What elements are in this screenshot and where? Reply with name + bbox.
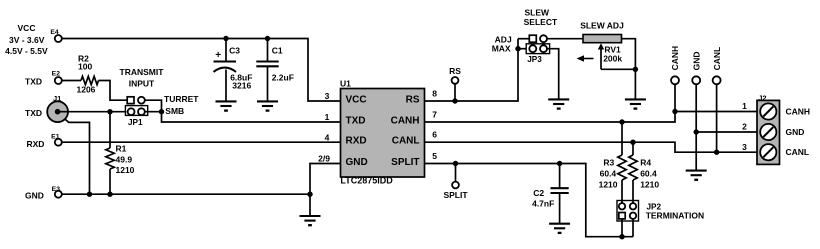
J2 screw terminal pin 1 CANH [760,103,776,119]
svg-text:CANL: CANL [786,147,810,157]
junction RS test point [452,98,457,103]
wire GND rail [62,193,310,195]
junction C3 tap on VCC rail [223,36,228,41]
svg-text:5: 5 [432,151,437,161]
resistor R1 [109,112,111,148]
junction JP2 on split rail [619,234,624,239]
svg-text:TXD: TXD [346,115,366,126]
svg-text:2/9: 2/9 [318,154,330,164]
svg-text:MAX: MAX [492,43,511,53]
svg-text:SLEW ADJ: SLEW ADJ [580,20,624,30]
junction SMB node [159,109,164,114]
svg-text:CANH: CANH [786,107,811,117]
svg-text:VCC: VCC [18,23,36,33]
svg-text:7: 7 [432,109,437,119]
svg-text:8: 8 [432,88,437,98]
wire U1 RS pin 8 to JP3 [425,39,519,101]
test point CANL [713,76,721,84]
jumper JP1 bottom-left pin [128,108,135,115]
test point CANH [671,76,679,84]
test point RS [454,84,456,101]
svg-text:JP3: JP3 [527,55,542,64]
junction J1 shell on GND rail [87,192,92,197]
junction chip GND on rail [307,192,312,197]
svg-text:GND: GND [786,127,805,137]
junction R4 tap on CANL [630,140,635,145]
svg-text:2.2uF: 2.2uF [272,72,294,82]
wire GND TP to ground [695,84,697,170]
jumper JP2 top-right pin [630,203,636,209]
svg-text:R3: R3 [603,157,614,167]
potentiometer RV1 [583,35,622,43]
jumper JP1 square pin [127,97,134,104]
junction R1 on GND rail [107,192,112,197]
svg-text:R4: R4 [640,157,651,167]
svg-text:TERMINATION: TERMINATION [646,210,704,220]
svg-text:VCC: VCC [346,94,367,105]
wire JP1 top circle to SMB node [145,100,162,112]
wire GND to J2 pin 2 [696,131,757,133]
wire JP3 top circle to RV1 [547,38,583,40]
svg-text:49.9: 49.9 [116,154,133,164]
svg-text:4.5V - 5.5V: 4.5V - 5.5V [5,46,48,56]
ground (JP3 MAX) [548,98,569,100]
svg-text:TRANSMIT: TRANSMIT [120,67,165,77]
svg-text:200k: 200k [603,54,622,64]
jumper JP3 shunt box [526,44,549,54]
RV1 adjust direction arrow [582,58,594,60]
svg-text:GND: GND [25,191,44,201]
ground (J2 GND) [686,170,707,172]
svg-text:SPLIT: SPLIT [391,157,419,168]
junction CANL TP tie [714,150,719,155]
jumper JP3 square pin (ADJ) [518,38,529,40]
wire R2 to JP1 square pin [99,81,128,101]
svg-text:1: 1 [742,101,747,111]
svg-text:C2: C2 [533,188,544,198]
junction CANH TP tie [672,109,677,114]
svg-text:3: 3 [742,142,747,152]
wire JP1 bottom-right to SMB node [145,111,162,113]
svg-text:6: 6 [432,130,437,140]
wire J1 center pin to JP1 [58,111,127,113]
capacitor C1 [267,39,269,62]
jumper JP1 shunt box [125,106,147,116]
resistor R4 [632,142,634,155]
svg-text:CANH: CANH [391,115,420,126]
svg-text:TXD: TXD [25,77,42,87]
svg-text:3V - 3.6V: 3V - 3.6V [9,35,45,45]
wire JP3 left tie to MAX row [518,48,526,50]
wire JP2 square to split rail [621,219,623,237]
svg-text:1210: 1210 [640,179,659,189]
transceiver U1 LTC2875IDD body [341,89,425,178]
svg-text:1: 1 [325,112,330,122]
junction C2 tap [557,161,562,166]
svg-text:60.4: 60.4 [640,168,657,178]
resistor R3 [621,122,623,155]
wire rail to ground symbol [309,194,311,216]
wire VCC rail E4 to chip pin 3 [62,39,341,102]
svg-text:GND: GND [346,157,368,168]
jumper JP1 bottom-right pin [138,108,145,115]
svg-text:TXD: TXD [25,108,42,118]
svg-text:U1: U1 [340,79,351,89]
svg-text:C3: C3 [229,46,240,56]
svg-text:SPLIT: SPLIT [443,190,468,200]
svg-text:JP1: JP1 [128,118,143,127]
svg-text:3: 3 [325,91,330,101]
svg-text:+: + [215,50,221,61]
svg-text:SELECT: SELECT [524,17,558,27]
svg-text:LTC2875IDD: LTC2875IDD [340,175,393,185]
junction JP3 left tie [515,46,520,51]
jumper JP3 bottom-right pin [540,45,547,52]
svg-text:RXD: RXD [346,136,367,147]
svg-text:RXD: RXD [27,139,45,149]
junction J2 pin 2 tie [694,129,699,134]
svg-text:R1: R1 [116,144,127,154]
svg-text:C1: C1 [272,46,283,56]
jumper JP2 bottom-right pin [630,213,636,219]
svg-text:CANL: CANL [712,47,722,71]
test point GND [692,76,700,84]
junction R3 tap on CANH [619,119,624,124]
wire E1 to U1 RXD pin 4 [62,141,341,143]
svg-text:1210: 1210 [116,165,135,175]
jumper JP3 top circle pin [540,35,547,42]
svg-text:1206: 1206 [77,85,96,95]
wire U1 CANH pin 7 to J2 pin 1 [425,84,676,122]
jumper JP2 top-left pin [619,203,625,209]
wire CANH to J2 pin 1 [675,111,757,113]
svg-text:SMB: SMB [165,106,184,116]
svg-text:4: 4 [325,132,330,142]
svg-text:SLEW: SLEW [525,7,551,17]
wire U1 GND pin 2/9 to rail [310,164,341,195]
junction SPLIT test point [453,161,458,166]
resistor R2 [81,76,99,84]
jumper JP2 box [617,201,639,222]
J2 screw terminal pin 2 GND [760,124,776,140]
svg-text:100: 100 [78,62,92,72]
svg-text:2: 2 [742,122,747,132]
wire JP3 bottom-right to ground [547,49,559,100]
ground (RV1) [625,98,646,100]
junction C1 tap on VCC rail [265,36,270,41]
wire E2 to R2 [62,80,81,82]
ground (U1 GND) [300,215,321,217]
capacitor C3 [225,39,227,62]
svg-text:3216: 3216 [232,81,251,91]
jumper JP3 bottom-left pin [529,45,536,52]
svg-text:GND: GND [691,52,701,71]
wire JP2 bottom-right to split rail [632,219,634,237]
J2 screw terminal pin 3 CANL [760,144,776,160]
svg-text:CANH: CANH [670,46,680,71]
svg-text:1210: 1210 [599,179,618,189]
svg-text:60.4: 60.4 [600,168,617,178]
test point SPLIT [455,164,457,182]
wire SMB node to U1 TXD pin 1 [162,112,341,122]
ground (C2) [549,223,570,225]
wire J1 shell to ground rail [65,119,90,194]
ground (C1) [257,100,278,102]
svg-text:RS: RS [406,94,420,105]
ground (C3) [216,100,237,102]
junction RV1 wiper tie [633,67,638,72]
capacitor C2 [559,164,561,189]
svg-text:TURRET: TURRET [164,94,199,104]
jumper JP2 square pin [619,213,625,219]
wire U1 CANL pin 6 to J2 pin 3 [425,142,758,152]
svg-text:CANL: CANL [392,136,420,147]
svg-text:RS: RS [449,66,461,76]
junction R1 tap on TXD line [107,109,112,114]
svg-text:INPUT: INPUT [129,79,155,89]
RV1 wiper arrow [598,43,604,49]
jumper JP1 top circle pin [138,97,145,104]
svg-text:4.7nF: 4.7nF [532,198,554,208]
wire RV1 right terminal to ground [622,39,636,100]
wire U1 SPLIT pin 5 to termination [425,164,634,237]
